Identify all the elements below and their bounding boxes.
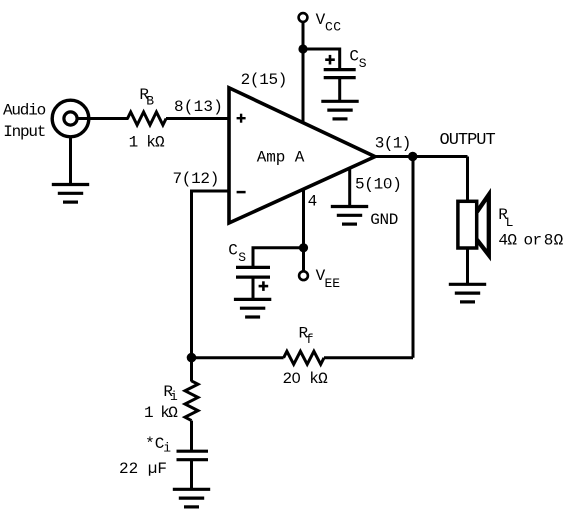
svg-text:S: S [238,250,246,265]
node Audio Input label [3,102,46,141]
wire CS to ground [338,78,341,102]
wire op-amp pin 5 to ground [348,168,351,206]
svg-text:1 kΩ: 1 kΩ [129,134,165,152]
polarity plus CS bottom [259,281,269,291]
ground pin 5 [331,207,368,225]
svg-text:Amp A: Amp A [257,148,305,166]
capacitor Ci [177,451,209,460]
svg-text:4: 4 [308,193,318,211]
wire Ci to ground [190,460,193,489]
polarity plus CS top [325,55,335,65]
ground Ci [173,489,210,507]
wire CS bottom to ground [252,277,255,299]
op-amp Amp A triangle [229,88,375,223]
svg-text:or: or [524,231,542,249]
svg-text:8Ω: 8Ω [544,231,564,249]
svg-text:4Ω: 4Ω [498,231,517,249]
wire feedback right segment [324,356,413,359]
ground speaker [449,284,486,302]
svg-text:5(10): 5(10) [355,175,402,193]
label Rf [299,325,314,347]
svg-text:C: C [349,48,359,66]
svg-text:OUTPUT: OUTPUT [440,131,496,150]
wire feedback left segment [192,356,284,359]
svg-text:7(12): 7(12) [173,170,220,188]
wire output to speaker [466,157,469,203]
capacitor CS (VEE bypass) [236,267,270,277]
capacitor CS (VCC bypass) [324,70,356,78]
label VCC [316,11,342,35]
junction output node [408,152,417,161]
terminal VCC [299,13,308,22]
svg-text:3(1): 3(1) [375,135,411,153]
svg-text:B: B [146,94,154,109]
wire RB to op-amp plus input [166,117,230,120]
label CS top [349,48,366,72]
svg-text:S: S [359,56,367,71]
label Ri [163,383,178,404]
wire op-amp minus input to feedback node [192,191,231,358]
wire VCC junction to CS [303,49,340,70]
resistor RB [128,112,167,125]
wire feedback node to Ri [190,358,193,382]
wire op-amp output [375,155,468,158]
label RL [498,206,513,230]
wire op-amp pin 4 to VEE junction [302,189,305,248]
junction VCC/CS [298,44,307,53]
ground CS top [321,101,358,119]
svg-text:L: L [506,215,514,230]
svg-text:22 µF: 22 µF [119,460,167,478]
speaker RL [458,195,489,255]
label CS bottom [228,241,246,265]
svg-text:GND: GND [370,211,398,229]
wire VEE stub [302,248,305,271]
svg-text:Audio: Audio [3,102,46,120]
svg-text:2(15): 2(15) [241,71,288,89]
junction feedback node [187,353,197,363]
junction VEE/CS node [299,243,308,252]
svg-text:f: f [306,332,314,347]
connector J1 audio input jack [52,100,89,137]
svg-text:1 kΩ: 1 kΩ [144,404,178,422]
op-amp plus input marker [237,114,246,123]
wire speaker to ground [466,248,469,284]
svg-text:i: i [163,441,171,456]
label RB [139,86,154,109]
svg-text:*C: *C [145,435,164,453]
svg-text:CC: CC [325,19,341,34]
wire output to feedback (vertical) [412,157,415,358]
svg-text:20 kΩ: 20 kΩ [283,370,329,388]
wire jack to RB [77,117,129,120]
ground CS bottom [234,299,271,317]
label *Ci [145,435,171,456]
wire VEE junction to CS bottom [253,248,304,267]
resistor Rf [284,351,324,364]
svg-text:8(13): 8(13) [174,98,223,116]
label VEE [316,267,341,291]
resistor Ri [185,381,198,421]
terminal VEE [299,271,308,280]
svg-text:Input: Input [3,123,45,141]
wire jack to ground [69,136,72,184]
svg-text:C: C [228,241,238,259]
wire Ri to Ci [190,421,193,451]
svg-text:EE: EE [325,276,341,291]
wire VCC to op-amp pin 2 [302,22,305,122]
op-amp minus input marker [237,191,246,194]
ground input jack [52,185,89,203]
svg-text:i: i [170,389,178,404]
